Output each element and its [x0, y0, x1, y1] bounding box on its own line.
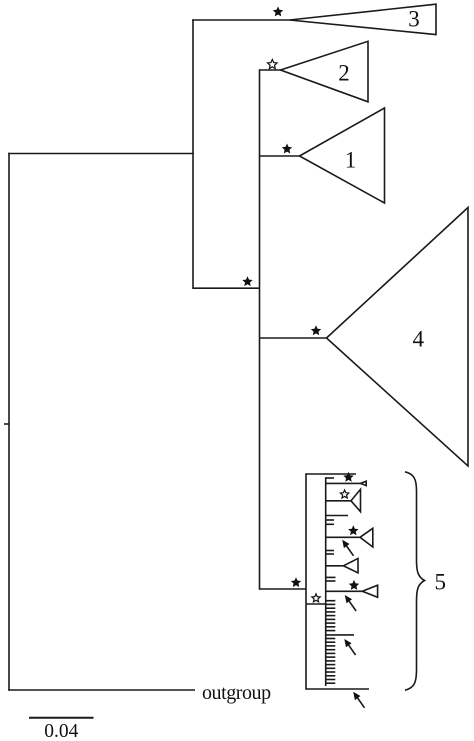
clade 5 top leaf branch: [306, 473, 356, 475]
filled star at clade 5 top leaf: [343, 472, 353, 482]
branch with open-star triangle leaf: [326, 500, 352, 502]
branch to clade 1: [260, 155, 301, 157]
triangle leaf: [360, 528, 373, 547]
branch with plain triangle leaf: [326, 565, 344, 567]
branch to outgroup: [8, 689, 195, 691]
narrow triangle leaf: [361, 481, 367, 485]
tick leaf: [326, 553, 334, 555]
dense comb of short terminal leaf ticks (lower block): [326, 639, 336, 684]
longer terminal branch inside comb: [326, 634, 354, 636]
plain triangle leaf: [344, 558, 359, 573]
filled star at clade 3 branch: [273, 6, 283, 16]
filled star at connector: [242, 276, 252, 286]
top tick leaf: [326, 477, 334, 479]
branch to clade 3: [192, 19, 290, 21]
clade 5 outer spine: [305, 473, 307, 690]
clade 2 triangle: [281, 41, 369, 102]
svg-text:5: 5: [435, 570, 447, 595]
triangle leaf: [362, 585, 377, 597]
filled star above branch: [349, 580, 359, 590]
tick leaf: [326, 523, 334, 525]
branch with second filled-star triangle leaf: [326, 590, 363, 592]
branch to clade 5: [260, 588, 307, 590]
root vertical trunk: [8, 153, 10, 691]
arrow pointing at comb branch: [344, 639, 355, 655]
dense comb of short terminal leaf ticks (upper block): [326, 601, 336, 631]
branch to clade 2: [260, 69, 282, 71]
tick leaf: [326, 576, 336, 578]
open star at clade 2 branch: [268, 60, 278, 69]
arrow pointing at branch: [342, 540, 353, 556]
connector branch between node verticals: [193, 287, 260, 289]
svg-text:3: 3: [408, 7, 420, 32]
svg-text:outgroup: outgroup: [202, 682, 271, 704]
clade 5 bottom leaf branch: [306, 688, 369, 690]
node vertical joining clades 2 1 4 5: [259, 69, 261, 590]
clade 1 triangle: [300, 108, 385, 203]
scale bar: [29, 717, 94, 719]
tall triangle leaf: [351, 489, 361, 511]
inner spine of clade 5: [325, 477, 327, 686]
filled star at clade 4 branch: [311, 325, 321, 335]
branch with filled-star triangle leaf: [326, 536, 361, 538]
branch to clade 4: [260, 337, 328, 339]
clade 3 triangle: [290, 4, 437, 34]
svg-text:2: 2: [338, 61, 350, 86]
connector to inner subtree of clade 5: [306, 603, 326, 605]
svg-text:0.04: 0.04: [44, 721, 78, 741]
curly brace spanning clade 5: [405, 472, 425, 690]
arrow pointing at branch: [345, 595, 356, 611]
filled star at clade 1 branch: [282, 144, 292, 154]
arrow at clade 5 bottom leaf: [353, 692, 364, 708]
branch to ingroup: [8, 153, 194, 155]
tick leaf long: [326, 515, 348, 517]
root stub: [4, 423, 10, 425]
filled star at clade 5 branch: [291, 577, 301, 587]
node vertical joining clade 3 and lower clades: [192, 19, 194, 289]
tick leaf: [326, 580, 336, 582]
branch with narrow triangle leaf: [326, 482, 362, 484]
tick leaf: [326, 550, 334, 552]
filled star above branch: [348, 525, 358, 535]
clade 4 triangle: [327, 208, 469, 467]
svg-text:4: 4: [413, 327, 425, 352]
tick leaf: [326, 519, 334, 521]
open star above branch: [340, 490, 348, 498]
svg-text:1: 1: [345, 148, 357, 173]
open star at inner connector: [312, 594, 320, 602]
